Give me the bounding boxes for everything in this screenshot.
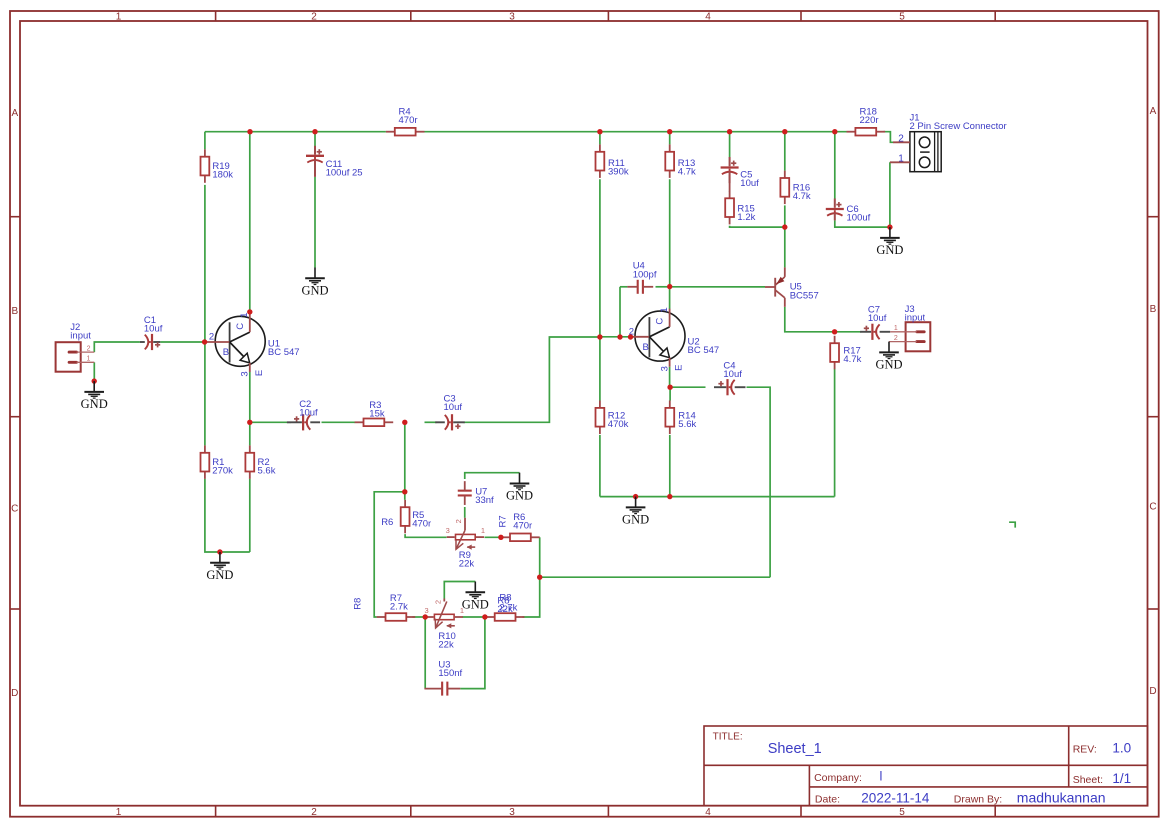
connector J2 [56, 342, 95, 372]
svg-text:10uf: 10uf [740, 178, 759, 189]
wire stray elbow [1009, 522, 1015, 527]
svg-text:3: 3 [240, 371, 251, 376]
label U2 BC 547 [688, 337, 720, 357]
wire R16 branch [784, 132, 786, 171]
wire U7 top to GND [465, 473, 520, 479]
wire J1 pin 1 down [889, 162, 891, 227]
wire R5 branch left [374, 492, 405, 617]
wire C5 branch [729, 132, 731, 158]
capacitor C4 [714, 379, 746, 395]
resistor R1 [201, 445, 210, 479]
svg-text:1: 1 [894, 325, 898, 332]
svg-text:2: 2 [454, 519, 463, 523]
svg-text:3: 3 [659, 366, 670, 371]
label R12 470k [608, 411, 629, 431]
svg-text:B: B [643, 342, 649, 353]
U1 pin 2 base [209, 332, 214, 343]
svg-text:2022-11-14: 2022-11-14 [861, 791, 930, 806]
label C7 10uf [868, 304, 887, 324]
label U4 100pf [633, 261, 657, 281]
resistor R2 [245, 445, 254, 479]
svg-text:1: 1 [87, 355, 91, 362]
wire R6 to node [539, 537, 541, 577]
title block [704, 726, 1148, 806]
svg-text:input: input [70, 331, 91, 342]
svg-text:Drawn By:: Drawn By: [954, 794, 1002, 806]
svg-text:C: C [655, 318, 666, 325]
junction U4 R13 [667, 284, 672, 289]
svg-text:33nf: 33nf [475, 495, 494, 506]
ground C6 J1 [876, 224, 903, 257]
svg-text:TITLE:: TITLE: [713, 732, 743, 743]
junction U1 emitter C2 [247, 420, 252, 425]
svg-text:5.6k: 5.6k [258, 466, 276, 477]
svg-text:E: E [674, 365, 685, 371]
svg-text:470k: 470k [608, 419, 629, 430]
R10 pin 1 [460, 606, 464, 615]
svg-text:1: 1 [659, 307, 670, 312]
label R13 4.7k [678, 158, 696, 178]
capacitor C5 [721, 157, 739, 183]
svg-text:GND: GND [301, 284, 328, 298]
svg-text:22k: 22k [497, 604, 513, 615]
label C11 100uf 25 [326, 159, 363, 179]
label C5 10uf [740, 169, 759, 189]
wire U2 emitter down [669, 367, 671, 387]
sheet name Sheet_1 [768, 741, 822, 757]
capacitor C2 [287, 414, 320, 430]
svg-text:Company:: Company: [814, 772, 862, 784]
wire R2 branch [249, 422, 251, 445]
svg-text:2: 2 [311, 12, 317, 23]
svg-text:A: A [1150, 106, 1157, 117]
svg-text:Sheet_1: Sheet_1 [768, 741, 822, 757]
svg-text:1.2k: 1.2k [737, 212, 755, 223]
wire C11 branch [314, 132, 316, 146]
label R8 2.7k [0, 0, 1, 1]
wire U2 base segment [600, 336, 630, 338]
svg-text:10uf: 10uf [299, 407, 318, 418]
svg-text:Sheet:: Sheet: [1073, 774, 1103, 786]
resistor R16 [780, 171, 789, 205]
svg-text:4: 4 [705, 807, 711, 818]
svg-text:R7: R7 [498, 515, 509, 527]
label R5 470r [412, 510, 431, 530]
capacitor U3 [424, 682, 460, 696]
ground J3 [875, 342, 902, 372]
ground R10 [462, 582, 489, 612]
junction VCC C5 [727, 129, 732, 134]
label R18 220r [860, 107, 879, 127]
svg-text:GND: GND [462, 598, 489, 612]
svg-text:B: B [223, 347, 229, 358]
label C6 100uf [847, 204, 871, 224]
ground C11 [301, 268, 328, 298]
svg-text:2: 2 [209, 332, 214, 343]
junction feedback node [537, 575, 542, 580]
svg-text:BC557: BC557 [790, 290, 819, 301]
svg-text:GND: GND [876, 243, 903, 257]
connector J1 [890, 132, 941, 172]
junction gnd rail R14 [667, 494, 672, 499]
ground J2 [81, 378, 108, 411]
svg-text:GND: GND [206, 568, 233, 582]
junction U1 base [202, 339, 207, 344]
svg-text:22k: 22k [438, 640, 454, 651]
svg-text:10uf: 10uf [444, 402, 463, 413]
svg-text:GND: GND [875, 358, 902, 372]
junction R5 node [402, 489, 407, 494]
svg-text:BC 547: BC 547 [268, 347, 300, 358]
junction R9 R6 [498, 535, 503, 540]
U2 label C [655, 318, 666, 325]
company value [880, 769, 883, 784]
transistor U2 [630, 309, 685, 367]
svg-text:GND: GND [506, 489, 533, 503]
capacitor C6 [826, 199, 844, 221]
svg-text:GND: GND [81, 397, 108, 411]
svg-text:2: 2 [894, 335, 898, 342]
wire U4 left riser [619, 287, 621, 337]
label R6 470r [513, 512, 532, 532]
R10 pin 2 [433, 600, 442, 604]
label R14 5.6k [678, 411, 696, 431]
junction R3 C3 [402, 420, 407, 425]
svg-text:10uf: 10uf [868, 313, 887, 324]
U1 pin 1 collector [239, 313, 250, 318]
wire R11 to U2 base [599, 179, 601, 337]
junction VCC U1 collector [247, 129, 252, 134]
resistor R7 [377, 613, 416, 621]
capacitor C7 [860, 324, 890, 340]
label R16 4.7k [793, 182, 811, 202]
svg-text:4.7k: 4.7k [678, 167, 696, 178]
resistor R19 [201, 149, 210, 183]
resistor R5 [401, 500, 410, 534]
svg-text:D: D [11, 688, 18, 699]
label C4 10uf [723, 360, 742, 380]
svg-text:470r: 470r [399, 115, 418, 126]
svg-text:C: C [1149, 502, 1156, 513]
U2 pin 3 emitter [659, 366, 670, 371]
label R8 value overlap [497, 592, 517, 615]
wire VCC rail [205, 131, 386, 133]
capacitor C1 [140, 334, 160, 350]
svg-text:E: E [254, 370, 265, 376]
rotated label R8 [353, 598, 364, 610]
wire node to R5 [404, 422, 406, 492]
svg-text:1: 1 [116, 12, 122, 23]
wire R9 pin 1 to R6 [485, 536, 501, 538]
wire U4 right [656, 286, 670, 288]
stray label R6 [381, 517, 393, 528]
R9 pin 3 [446, 526, 450, 535]
svg-text:GND: GND [622, 513, 649, 527]
wire gnd rail mid [600, 496, 835, 498]
junction U2 emitter [667, 385, 672, 390]
J3 pin 1 number [894, 325, 898, 332]
label R4 470r [399, 107, 418, 127]
junction VCC R11 [597, 129, 602, 134]
label U5 BC557 [790, 282, 819, 302]
R9 pin 1 [481, 526, 485, 535]
wire R1 branch [204, 342, 206, 445]
label C3 10uf [444, 394, 463, 414]
U1 label C [235, 323, 246, 330]
junction R15 R16 [782, 224, 787, 229]
svg-text:220r: 220r [860, 115, 879, 126]
svg-text:2: 2 [87, 345, 91, 352]
ground mid rail [622, 494, 649, 527]
svg-text:2: 2 [898, 134, 904, 145]
svg-text:R6: R6 [381, 517, 393, 528]
junction R10 R8 [482, 614, 487, 619]
wire C5 to R15 [729, 175, 731, 192]
wire R5 bottom to R9 pin 3 [405, 534, 446, 537]
junction U5 collector R17 [832, 329, 837, 334]
label R1 270k [212, 457, 233, 477]
svg-text:B: B [1150, 304, 1157, 315]
wire R10 wiper to GND [444, 582, 475, 599]
label U3 150nf [438, 659, 462, 679]
title label [713, 732, 743, 743]
wire R13 branch [669, 132, 671, 145]
wire R1 to GND rail [205, 479, 250, 552]
svg-text:1: 1 [898, 154, 904, 165]
wire R18 to J1 pin 2 [884, 132, 894, 143]
capacitor C3 [435, 414, 465, 430]
wire R5 top stub [404, 492, 406, 500]
wire R13 to U4 node [669, 179, 671, 286]
wire U4 node to U5 base [670, 286, 765, 288]
svg-text:4.7k: 4.7k [793, 191, 811, 202]
svg-text:22k: 22k [459, 559, 475, 570]
svg-text:3: 3 [425, 606, 429, 615]
svg-text:5: 5 [899, 12, 905, 23]
label R19 180k [212, 161, 233, 181]
svg-text:10uf: 10uf [723, 369, 742, 380]
svg-text:Date:: Date: [815, 794, 840, 806]
svg-text:C: C [235, 323, 246, 330]
U1 label E [254, 370, 265, 376]
rotated label R7 [498, 515, 509, 527]
svg-text:2: 2 [433, 600, 442, 604]
U2 label B [643, 342, 649, 353]
capacitor C11 [306, 146, 324, 177]
U2 pin 2 base [629, 327, 634, 338]
junction U2 base U4 [617, 334, 622, 339]
junction VCC C11 [312, 129, 317, 134]
resistor R8 [486, 613, 525, 621]
U1 pin 3 emitter [240, 371, 251, 376]
label R15 1.2k [737, 204, 755, 224]
svg-text:D: D [1149, 686, 1156, 697]
wire emitter node to C4 [670, 386, 705, 388]
svg-text:BC 547: BC 547 [688, 345, 720, 356]
date label [815, 794, 840, 806]
J1 pin 2 number [898, 134, 904, 145]
U1 label B [223, 347, 229, 358]
svg-text:4: 4 [705, 12, 711, 23]
label J1 2 Pin Screw Connector [910, 113, 1007, 133]
wire U4 left stub [620, 286, 627, 288]
wire R7 to R10 pin 3 [412, 616, 427, 618]
svg-text:10uf: 10uf [144, 324, 163, 335]
capacitor U7 [458, 481, 472, 505]
label C1 10uf [144, 315, 163, 335]
wire R12 bottom [599, 435, 601, 497]
svg-text:100pf: 100pf [633, 269, 657, 280]
wire U3 right up [460, 617, 485, 689]
wire R12 branch [599, 337, 601, 401]
svg-text:B: B [11, 306, 18, 317]
resistor R12 [596, 401, 605, 435]
wire J2 pin 2 to C1 [94, 342, 140, 352]
svg-text:madhukannan: madhukannan [1017, 790, 1106, 806]
wire R17 to gnd rail [834, 369, 836, 497]
wire U1 collector [249, 132, 251, 312]
wire C2 left [250, 421, 291, 423]
J2 pin 2 number [87, 345, 91, 352]
label U7 33nf [475, 487, 494, 507]
junction U2 base pin [628, 334, 633, 339]
label U1 BC 547 [268, 338, 300, 358]
R9 pin 2 [454, 519, 463, 523]
U2 label E [674, 365, 685, 371]
ground U7 [506, 473, 533, 503]
wire R8 right up [523, 577, 540, 617]
resistor R15 [725, 191, 734, 225]
svg-text:4.7k: 4.7k [843, 354, 861, 365]
drawn by label [954, 794, 1002, 806]
wire R11 branch [599, 132, 601, 145]
resistor R18 [847, 128, 886, 136]
wire R16 to U5 emitter [784, 205, 786, 267]
svg-text:100uf 25: 100uf 25 [326, 168, 363, 179]
svg-text:1: 1 [116, 807, 122, 818]
wire C2 to R3 [322, 421, 356, 423]
label R7 2.7k [390, 593, 408, 613]
junction U2 base R11 [597, 334, 602, 339]
svg-text:180k: 180k [212, 170, 233, 181]
wire U5 collector down [785, 307, 835, 332]
resistor R3 [355, 419, 394, 427]
label R10 22k [438, 631, 455, 651]
label R3 15k [369, 400, 385, 420]
wire R14 bottom [669, 435, 671, 497]
drawn by value madhukannan [1017, 790, 1106, 806]
sheet number label [1073, 774, 1103, 786]
wire R19 branch [204, 132, 206, 150]
wire J2 pin 1 to GND [93, 362, 95, 381]
label J2 input [70, 322, 91, 342]
transistor U1 [205, 314, 266, 372]
svg-text:l: l [880, 769, 883, 784]
wire VCC rail right of R4 [425, 131, 847, 133]
svg-text:A: A [11, 108, 18, 119]
wire C6 branch [834, 132, 836, 199]
svg-text:470r: 470r [412, 519, 431, 530]
connector J3 [889, 322, 930, 351]
svg-text:1/1: 1/1 [1112, 771, 1131, 786]
svg-text:270k: 270k [212, 466, 233, 477]
svg-text:2: 2 [311, 807, 317, 818]
svg-text:5: 5 [899, 807, 905, 818]
wire U2 collector riser [669, 287, 671, 309]
resistor R13 [665, 144, 674, 178]
wire U7 bottom [464, 507, 466, 518]
resistor R17 [830, 336, 839, 370]
label R11 390k [608, 158, 629, 178]
resistor R11 [596, 144, 605, 178]
svg-text:2.7k: 2.7k [390, 602, 408, 613]
label R9 22k [459, 550, 475, 570]
potentiometer R9 [447, 518, 484, 550]
company label [814, 772, 862, 784]
J2 pin 1 number [87, 355, 91, 362]
wire node to feedback [540, 576, 770, 578]
wire R14 branch [669, 387, 671, 400]
svg-text:390k: 390k [608, 167, 629, 178]
wire R15 to R16 node [730, 226, 785, 227]
label R17 4.7k [843, 346, 861, 366]
date value 2022-11-14 [861, 791, 930, 806]
capacitor U4 [627, 280, 653, 294]
transistor U5 [765, 267, 785, 307]
wire R10 node down to U3 [424, 617, 426, 689]
rev value 1.0 [1112, 741, 1131, 756]
resistor R14 [665, 401, 674, 435]
svg-text:15k: 15k [369, 409, 385, 420]
svg-text:150nf: 150nf [438, 668, 462, 679]
svg-text:3: 3 [509, 807, 515, 818]
svg-text:R8: R8 [353, 598, 364, 610]
wire R10 pin 1 to R8 [462, 616, 486, 618]
svg-text:3: 3 [509, 12, 515, 23]
label C2 10uf [299, 399, 318, 419]
wire R2 to GND rail [249, 479, 251, 552]
svg-text:100uf: 100uf [847, 213, 871, 224]
wire U1 emitter to C2 node [249, 372, 251, 422]
svg-text:1.0: 1.0 [1112, 741, 1131, 756]
wire R19 to base node [204, 185, 206, 342]
wire C1 to U1 base [160, 341, 204, 343]
wire C11 to GND [314, 177, 316, 268]
wire C6 to GND node [835, 220, 890, 227]
wire C7 left [835, 331, 862, 333]
junction VCC R16 [782, 129, 787, 134]
J3 pin 2 number [894, 335, 898, 342]
rev label [1073, 744, 1097, 756]
resistor R4 [386, 128, 425, 136]
potentiometer R10 [426, 599, 463, 629]
svg-text:input: input [905, 312, 926, 323]
sheet number value 1/1 [1112, 771, 1131, 786]
wire C4 right down [747, 387, 771, 577]
svg-text:C: C [11, 504, 18, 515]
U2 pin 1 collector [659, 307, 670, 312]
R10 pin 3 [425, 606, 429, 615]
svg-text:REV:: REV: [1073, 744, 1097, 756]
svg-text:1: 1 [481, 526, 485, 535]
label R2 5.6k [258, 457, 276, 477]
wire R3 to C3 node [425, 421, 437, 423]
ground R1 R2 [206, 549, 233, 582]
label J3 input [905, 304, 926, 324]
svg-text:3: 3 [446, 526, 450, 535]
svg-text:5.6k: 5.6k [678, 419, 696, 430]
junction R7 R10 [423, 614, 428, 619]
